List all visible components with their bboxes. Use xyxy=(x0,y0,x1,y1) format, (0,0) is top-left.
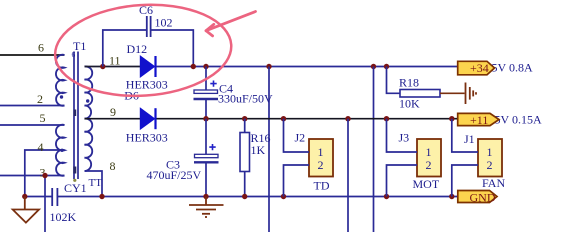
svg-text:J3: J3 xyxy=(399,131,410,145)
junction net3 xyxy=(42,173,47,178)
svg-text:470uF/25V: 470uF/25V xyxy=(147,168,202,182)
power flag +11 xyxy=(458,113,499,127)
capacitor C6 xyxy=(147,16,151,37)
svg-text:6: 6 xyxy=(38,41,44,55)
resistor R18 xyxy=(400,90,440,98)
connector J2 xyxy=(309,139,333,177)
connector J3 xyxy=(417,139,441,177)
diode D6 xyxy=(140,108,155,129)
junction rail3 J3 xyxy=(384,194,389,199)
resistor R18 wire right xyxy=(440,92,465,94)
svg-text:11: 11 xyxy=(109,54,121,68)
svg-text:10K: 10K xyxy=(399,97,420,111)
wire rail2 drop C to bottom xyxy=(347,119,349,232)
resistor R16 wire bottom xyxy=(244,172,246,197)
resistor R16 wire top xyxy=(244,119,246,133)
svg-text:R18: R18 xyxy=(399,76,419,90)
connector J2 pin2 wire xyxy=(284,165,310,197)
diode D12 xyxy=(140,56,155,77)
connector J3 pin2 wire xyxy=(387,165,418,197)
capacitor C4 wire bottom xyxy=(205,100,207,119)
connector J1 pin2 wire xyxy=(452,165,478,197)
transformer T1 polarity dot primary2 xyxy=(60,149,63,152)
power flag +34 xyxy=(458,61,495,75)
wire net3 drop to bottom edge xyxy=(44,176,46,233)
connector J3 pin1 wire xyxy=(387,119,418,152)
junction rail1 drop A xyxy=(266,64,271,69)
svg-text:102K: 102K xyxy=(50,210,77,224)
svg-text:D12: D12 xyxy=(127,42,148,56)
junction rail2 J1 xyxy=(449,116,454,121)
svg-text:5V 0.8A: 5V 0.8A xyxy=(492,61,533,75)
connector J2 pin1 wire xyxy=(284,119,310,152)
junction rail2 J2 xyxy=(281,116,286,121)
wire pin4 to ground xyxy=(25,150,65,197)
power flag GND xyxy=(458,191,497,205)
junction rail1 C4 xyxy=(203,64,208,69)
capacitor C3 wire bottom xyxy=(205,163,207,196)
svg-text:9: 9 xyxy=(110,105,116,119)
svg-text:1: 1 xyxy=(318,145,324,159)
earth ground under C3 xyxy=(189,197,224,218)
connector J1 xyxy=(478,139,502,177)
svg-text:2: 2 xyxy=(318,158,324,172)
svg-text:+34: +34 xyxy=(470,61,489,75)
wire rail2 (+11 rail) xyxy=(157,118,458,120)
capacitor C4 plus sign xyxy=(210,81,216,87)
transformer T1 core xyxy=(74,52,78,180)
wire ground rail (rail3) xyxy=(58,196,458,198)
svg-text:2: 2 xyxy=(487,158,493,172)
power ground bars (R18) xyxy=(466,83,477,105)
wire rail1 (+34 rail) xyxy=(157,66,458,68)
transformer T1 pin mark low xyxy=(73,167,76,174)
capacitor C4 xyxy=(194,90,219,99)
resistor R16 xyxy=(240,133,250,172)
svg-text:GND: GND xyxy=(470,191,496,205)
capacitor C3 plus sign xyxy=(209,144,215,150)
svg-text:4: 4 xyxy=(38,140,44,154)
capacitor CY1 xyxy=(52,188,57,206)
svg-text:1K: 1K xyxy=(251,143,266,157)
wire rail1 drop A to bottom xyxy=(268,67,270,233)
svg-text:TD: TD xyxy=(314,179,330,193)
svg-text:J2: J2 xyxy=(295,131,306,145)
annotation ellipse xyxy=(52,0,234,101)
wire pin11 to D12 anode xyxy=(85,66,141,68)
svg-text:MOT: MOT xyxy=(413,177,440,191)
svg-text:+11: +11 xyxy=(470,113,488,127)
junction rail3 C3/earth xyxy=(203,194,208,199)
wire ground rail left (to CY1) xyxy=(25,196,52,198)
svg-text:2: 2 xyxy=(426,158,432,172)
transformer T1 primary winding 1 (pins 6-2) xyxy=(56,55,65,106)
svg-text:102: 102 xyxy=(155,16,173,30)
junction rail3 J2 xyxy=(281,194,286,199)
transformer T1 primary winding 2 (pins 5-4-3) xyxy=(56,125,65,176)
wire rail1 drop B to bottom xyxy=(373,67,375,233)
junction rail3 GND flag xyxy=(449,194,454,199)
transformer T1 polarity dot secondary xyxy=(86,99,89,102)
ground chassis triangle xyxy=(13,197,39,223)
svg-text:TT: TT xyxy=(89,177,103,189)
connector J1 pin1 wire xyxy=(452,119,478,152)
transformer T1 polarity dot primary1 xyxy=(60,95,63,98)
capacitor C4 wire top xyxy=(205,67,207,91)
svg-text:1: 1 xyxy=(426,145,432,159)
junction rail1 drop B xyxy=(371,64,376,69)
svg-text:1: 1 xyxy=(487,145,493,159)
svg-text:330uF/50V: 330uF/50V xyxy=(218,92,273,106)
svg-text:HER303: HER303 xyxy=(126,131,168,145)
wire pin8 to ground rail xyxy=(85,171,103,197)
capacitor C6 loop wire left xyxy=(103,30,146,67)
junction rail1 C6 xyxy=(191,64,196,69)
svg-text:8: 8 xyxy=(110,159,116,173)
capacitor C3 wire top xyxy=(205,119,207,155)
transformer T1 secondary winding 1 (pins 11-9) xyxy=(85,66,93,118)
junction rail3 triangle ground xyxy=(22,194,27,199)
svg-text:FAN: FAN xyxy=(482,176,505,190)
transformer T1 pin mark bottom xyxy=(73,179,76,182)
junction rail1 R18 xyxy=(384,64,389,69)
wire net6 left stub xyxy=(0,54,65,56)
wire net3 left stub xyxy=(0,175,65,177)
resistor R18 wire left xyxy=(387,67,401,94)
junction rail2 drop C xyxy=(345,116,350,121)
junction rail2 C4/C3 xyxy=(203,116,208,121)
svg-text:J1: J1 xyxy=(464,132,475,146)
svg-text:2: 2 xyxy=(37,92,43,106)
junction rail3 R16 xyxy=(242,194,247,199)
capacitor C6 loop wire right xyxy=(151,30,193,67)
svg-text:T1: T1 xyxy=(73,39,86,53)
svg-text:5: 5 xyxy=(40,111,46,125)
junction node 11 xyxy=(100,64,105,69)
wire net5 left stub xyxy=(0,124,65,126)
junction rail2 J3 xyxy=(384,116,389,121)
capacitor C3 xyxy=(194,154,219,162)
junction rail2 R16 xyxy=(242,116,247,121)
wire pin9 to D6 anode xyxy=(85,118,141,120)
junction rail3 pin8 xyxy=(99,194,104,199)
wire net2 left stub xyxy=(0,105,65,107)
transformer T1 pin mark mid xyxy=(74,110,77,117)
svg-text:CY1: CY1 xyxy=(64,181,87,195)
annotation arrow xyxy=(206,12,256,36)
svg-text:5V 0.15A: 5V 0.15A xyxy=(495,113,542,127)
transformer T1 secondary winding 2 (pins 9-8) xyxy=(85,119,93,171)
